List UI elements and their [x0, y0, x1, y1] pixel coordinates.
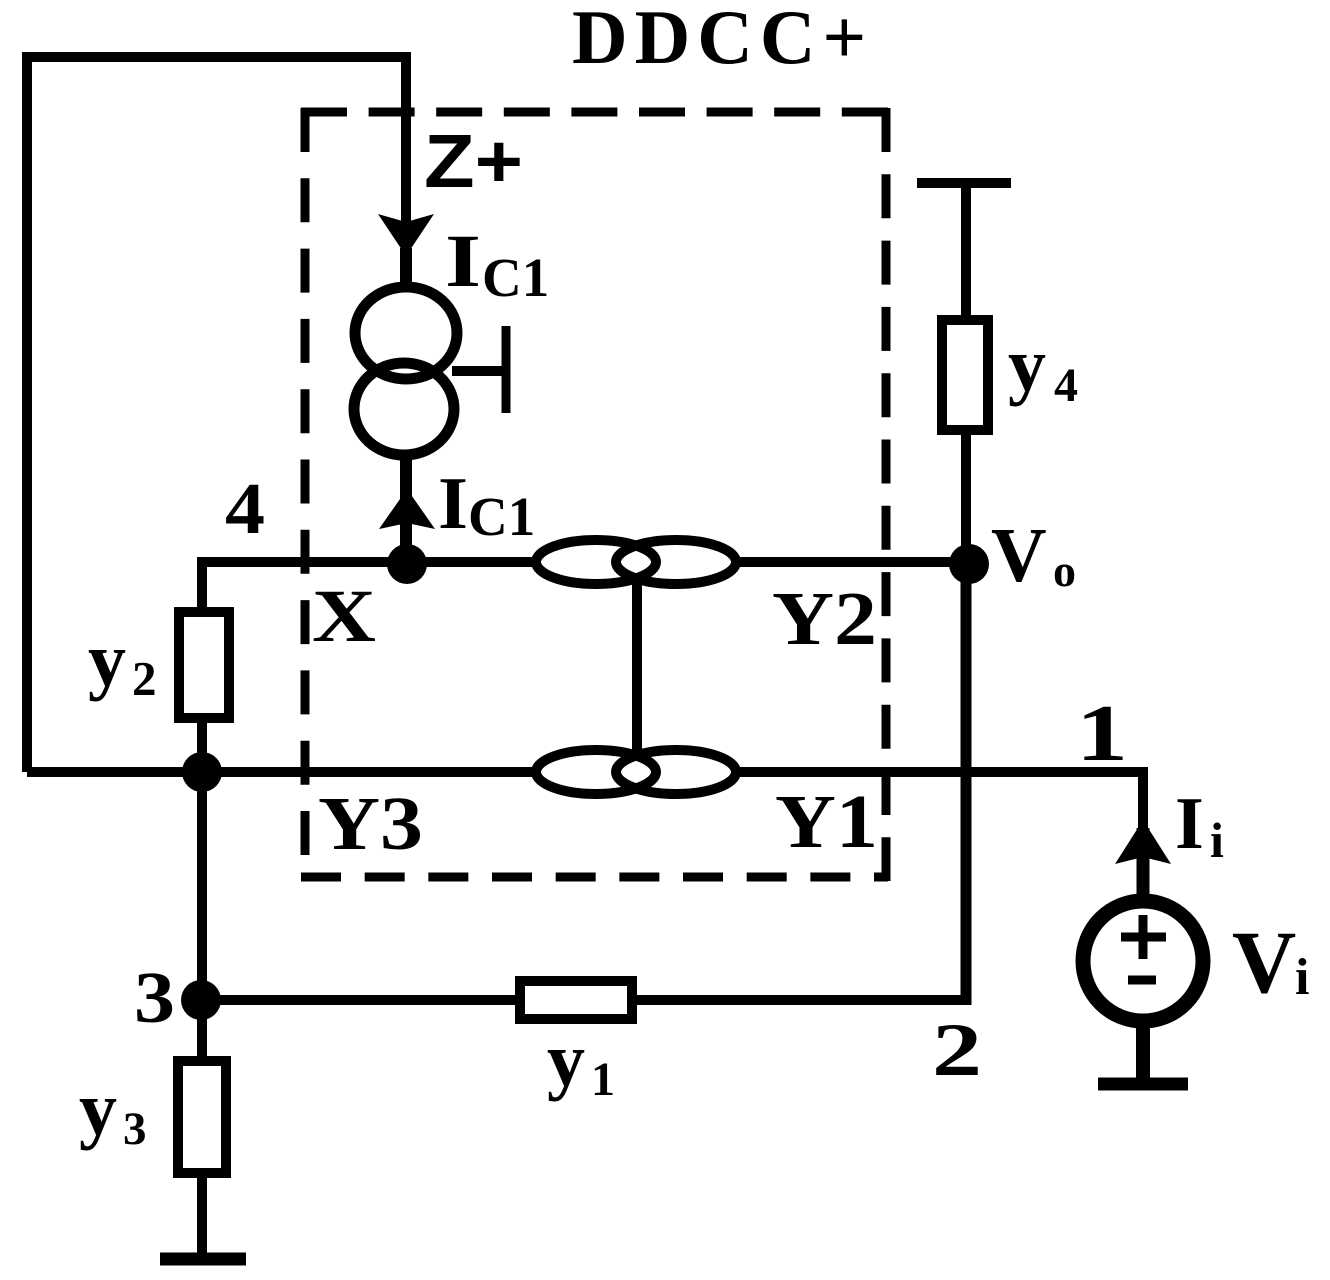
svg-text:3: 3: [123, 1103, 147, 1155]
svg-text:2: 2: [932, 1009, 982, 1092]
svg-text:y: y: [547, 1018, 585, 1102]
svg-text:y: y: [1008, 323, 1046, 407]
svg-text:X: X: [312, 575, 376, 658]
svg-text:4: 4: [1054, 359, 1078, 412]
svg-text:C1: C1: [482, 247, 549, 308]
svg-text:2: 2: [132, 651, 157, 706]
svg-text:I: I: [445, 220, 481, 303]
svg-text:3: 3: [134, 957, 175, 1038]
svg-text:V: V: [1232, 914, 1296, 1012]
svg-text:I: I: [438, 463, 468, 545]
svg-text:C1: C1: [468, 486, 535, 547]
svg-text:o: o: [1053, 545, 1076, 596]
svg-text:1: 1: [591, 1053, 615, 1106]
svg-text:i: i: [1210, 812, 1224, 868]
svg-text:DDCC+: DDCC+: [572, 0, 873, 80]
svg-text:Z+: Z+: [424, 119, 523, 203]
svg-text:y: y: [79, 1067, 117, 1151]
svg-text:i: i: [1295, 949, 1309, 1006]
svg-text:Y1: Y1: [775, 780, 878, 864]
svg-text:Y3: Y3: [318, 782, 423, 866]
svg-text:1: 1: [1076, 690, 1128, 778]
svg-text:V: V: [991, 512, 1047, 598]
svg-text:4: 4: [225, 468, 265, 549]
svg-text:I: I: [1175, 783, 1204, 865]
svg-text:y: y: [88, 618, 126, 702]
svg-text:Y2: Y2: [772, 577, 877, 661]
